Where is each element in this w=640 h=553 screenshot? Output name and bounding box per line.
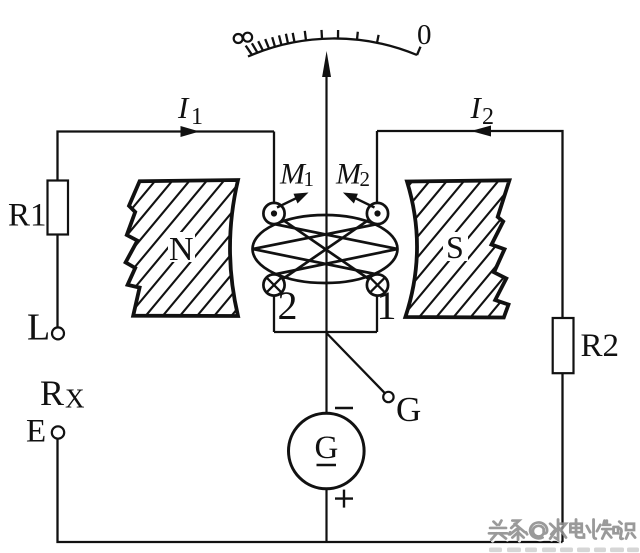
svg-text:1: 1 bbox=[304, 167, 315, 191]
svg-text:0: 0 bbox=[417, 19, 432, 51]
svg-text:I: I bbox=[177, 90, 190, 125]
svg-text:E: E bbox=[26, 414, 46, 450]
svg-text:R1: R1 bbox=[8, 198, 47, 234]
svg-text:G: G bbox=[396, 390, 421, 429]
svg-text:R: R bbox=[40, 373, 64, 413]
svg-text:1: 1 bbox=[377, 283, 397, 328]
svg-text:2: 2 bbox=[482, 104, 494, 130]
svg-text:2: 2 bbox=[278, 283, 298, 328]
svg-text:S: S bbox=[446, 229, 464, 265]
svg-text:R2: R2 bbox=[581, 328, 620, 364]
svg-text:I: I bbox=[470, 90, 483, 125]
svg-text:L: L bbox=[27, 307, 50, 349]
svg-text:G: G bbox=[315, 430, 339, 466]
svg-text:N: N bbox=[169, 231, 194, 268]
svg-text:2: 2 bbox=[360, 167, 371, 191]
svg-text:1: 1 bbox=[191, 104, 203, 130]
svg-text:X: X bbox=[65, 384, 85, 414]
